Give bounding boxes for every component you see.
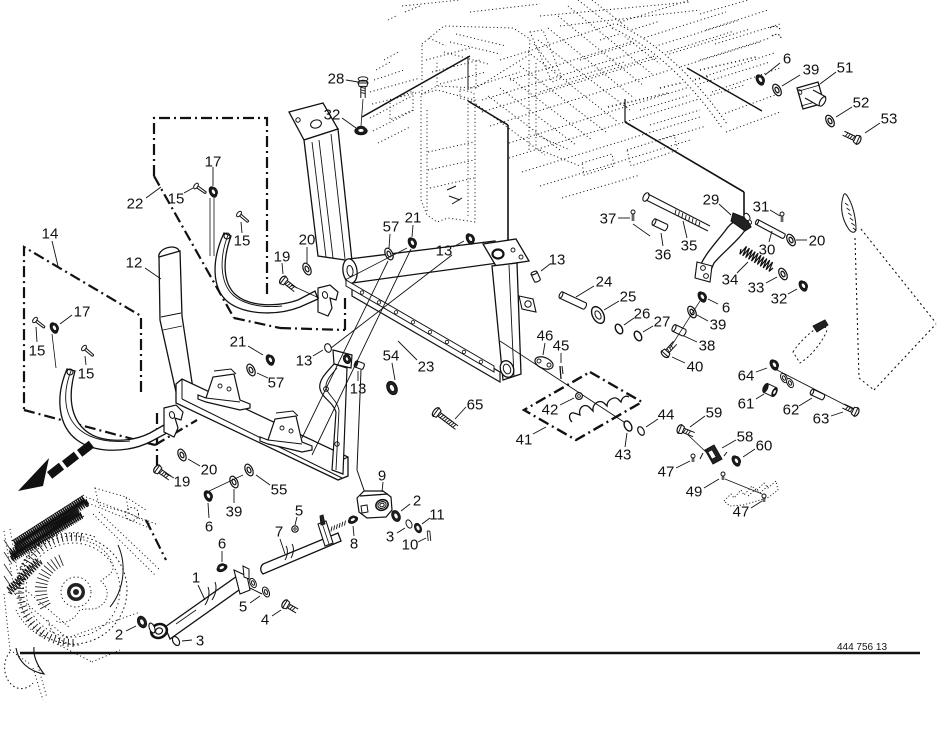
post D bracket: [333, 350, 352, 368]
bolt 53: [842, 129, 863, 145]
leader 57a long: [302, 261, 388, 438]
washer 57b: [245, 363, 257, 377]
leader 19-20 to band: [291, 285, 319, 298]
svg-text:33: 33: [748, 279, 765, 296]
pin 13c: [323, 343, 332, 353]
bolt 63: [841, 402, 860, 417]
post 32 body: [304, 129, 352, 261]
svg-text:23: 23: [418, 358, 435, 375]
screw 15d: [81, 344, 96, 358]
rod 35: [642, 192, 651, 203]
washers 62: [779, 372, 789, 383]
svg-text:55: 55: [271, 481, 288, 498]
svg-text:15: 15: [168, 190, 185, 207]
svg-text:32: 32: [771, 290, 788, 307]
chassis mounting bracket (dotted): [460, 89, 474, 102]
dash-dot clamp box lower: [156, 413, 158, 470]
leader 13a long: [331, 255, 452, 348]
pennant blade: [842, 194, 856, 232]
svg-text:35: 35: [681, 237, 698, 254]
machine bottom hook: [16, 647, 44, 674]
svg-text:7: 7: [275, 523, 283, 540]
pin 31: [780, 212, 784, 222]
nut 6a: [696, 290, 708, 304]
svg-text:43: 43: [615, 446, 632, 463]
rod 1: [165, 574, 246, 639]
lever 29: [698, 219, 749, 277]
chassis corner curl (dotted): [770, 26, 781, 38]
nut 17b: [49, 321, 61, 335]
post C side tab: [519, 296, 536, 312]
svg-text:15: 15: [78, 365, 95, 382]
machine spring lower: [7, 559, 42, 594]
svg-text:3: 3: [196, 632, 204, 649]
bushing 2a: [136, 615, 149, 629]
chassis rivet rows (dotted): [608, 93, 668, 107]
ring 11: [413, 522, 423, 533]
nut 60: [730, 454, 742, 468]
leader 21a long: [312, 249, 411, 455]
svg-text:17: 17: [205, 153, 222, 170]
washer 55: [243, 463, 255, 477]
lever 29 foot: [695, 262, 712, 282]
machine frame bars: [86, 497, 156, 524]
bell crank (dotted): [793, 327, 827, 363]
svg-text:9: 9: [378, 467, 386, 484]
ring 43: [622, 420, 633, 433]
post C foot: [498, 359, 516, 379]
chassis leader to part 51: [687, 68, 762, 111]
svg-text:58: 58: [737, 428, 754, 445]
nut 32b: [797, 279, 809, 293]
svg-text:20: 20: [809, 232, 826, 249]
svg-text:27: 27: [654, 313, 671, 330]
rod 7 thread: [331, 527, 332, 532]
nut 13a: [465, 232, 477, 246]
chassis short lines near cut (dotted): [640, 95, 690, 110]
svg-text:47: 47: [733, 503, 750, 520]
nut 17a: [208, 185, 220, 199]
post 12: [157, 245, 181, 264]
machine lower arcs: [5, 652, 33, 689]
pin 49: [721, 472, 725, 480]
svg-text:8: 8: [350, 535, 358, 552]
chassis inclined face lines (dotted): [476, 104, 545, 155]
svg-text:6: 6: [218, 535, 226, 552]
svg-text:14: 14: [42, 225, 59, 242]
svg-text:13: 13: [350, 380, 367, 397]
washer 20b: [176, 448, 188, 462]
pin 47b: [762, 494, 766, 502]
spring 34: [740, 246, 773, 271]
post C head plate: [483, 239, 529, 266]
svg-text:20: 20: [201, 461, 218, 478]
leader 37: [633, 224, 650, 236]
A-bracket 2: [260, 416, 312, 452]
svg-text:47: 47: [658, 463, 675, 480]
A-bracket 1: [198, 374, 250, 410]
machine top bracket: [95, 488, 129, 513]
chassis cut edge right: [624, 99, 626, 122]
washer 20c: [785, 233, 797, 247]
svg-text:54: 54: [383, 347, 400, 364]
svg-text:15: 15: [234, 232, 251, 249]
chassis top edge lines (dotted): [402, 0, 460, 6]
frame beam: [176, 379, 348, 480]
post 32 head plate: [289, 103, 338, 140]
rod 7 end bracket: [318, 521, 333, 546]
svg-text:24: 24: [596, 273, 613, 290]
washer 5a: [261, 586, 271, 598]
upper band strap: [215, 233, 318, 313]
axis 28-32: [361, 99, 363, 126]
washer 20a: [301, 262, 313, 276]
bolt 19b: [152, 464, 172, 482]
washer 39c: [228, 475, 240, 489]
leader 59-58: [687, 434, 706, 452]
svg-text:39: 39: [803, 61, 820, 78]
svg-text:11: 11: [429, 506, 445, 523]
bushing 54: [385, 380, 400, 397]
chassis step bracket (dotted): [627, 135, 678, 166]
pin 24: [558, 291, 587, 309]
svg-text:60: 60: [756, 437, 773, 454]
post D body: [320, 364, 347, 474]
svg-text:42: 42: [542, 401, 559, 418]
bolt 19a: [278, 275, 298, 294]
pin 10: [427, 531, 428, 541]
nut 21b: [265, 353, 277, 367]
pin 37: [631, 210, 635, 221]
chassis wheel arch (dotted): [614, 26, 725, 126]
svg-text:65: 65: [467, 396, 484, 413]
machine left post hatch: [4, 540, 12, 552]
ring 3b: [405, 519, 414, 529]
clevis 9: [357, 491, 392, 518]
bolt 59: [676, 424, 696, 439]
svg-text:52: 52: [853, 94, 870, 111]
svg-text:6: 6: [783, 50, 791, 67]
svg-text:21: 21: [230, 333, 247, 350]
svg-text:13: 13: [549, 251, 566, 268]
chassis main rails (dotted): [482, 20, 740, 100]
dash-dot box 41: [524, 372, 642, 440]
rod 1 eye: [149, 622, 169, 641]
axis line 42: [500, 341, 627, 424]
axis 6-40: [670, 301, 700, 348]
svg-text:44: 44: [658, 406, 675, 423]
wire form 42: [570, 396, 629, 422]
cotter 45: [560, 366, 561, 379]
svg-text:21: 21: [405, 209, 422, 226]
svg-text:444 756 13: 444 756 13: [837, 642, 887, 653]
pin 47a: [691, 454, 695, 462]
svg-text:10: 10: [402, 536, 419, 553]
bracket 58: [705, 445, 722, 464]
svg-text:29: 29: [703, 191, 720, 208]
bushing 13b: [531, 270, 541, 282]
machine sector curve: [110, 545, 123, 607]
leader 55 line: [205, 475, 243, 493]
leader 49 axis: [725, 479, 762, 494]
spacer 38: [671, 324, 687, 337]
chassis front housing (dotted): [422, 26, 530, 94]
bolt 4: [280, 599, 299, 615]
svg-text:57: 57: [383, 218, 400, 235]
chassis cut edge center: [468, 101, 508, 125]
axis 61-63: [777, 370, 853, 409]
ring 3a: [171, 635, 181, 646]
svg-text:6: 6: [722, 299, 730, 316]
washer 33: [777, 267, 789, 281]
svg-text:1: 1: [192, 569, 200, 586]
leader lines 17b: [52, 334, 56, 368]
nut 8: [347, 514, 359, 525]
svg-text:51: 51: [837, 59, 854, 76]
svg-text:34: 34: [722, 271, 739, 288]
svg-text:49: 49: [686, 483, 703, 500]
svg-text:45: 45: [553, 337, 570, 354]
svg-text:37: 37: [600, 210, 617, 227]
jagged lever (dotted): [724, 481, 778, 506]
svg-text:57: 57: [268, 374, 285, 391]
svg-text:59: 59: [706, 404, 723, 421]
rod 1 end block: [234, 570, 250, 594]
frame leader line down to clevis: [357, 370, 361, 470]
svg-text:62: 62: [783, 401, 800, 418]
washer 39a: [686, 305, 698, 319]
svg-text:31: 31: [753, 198, 770, 215]
bolt 40: [660, 340, 678, 359]
brace bar 23: [352, 286, 500, 382]
leader 21a: [345, 248, 407, 280]
chassis left panel (dotted): [421, 90, 475, 222]
bolt 65: [431, 406, 460, 431]
svg-text:2: 2: [115, 626, 123, 643]
dash-dot box 14: [24, 247, 141, 410]
chassis rails right of arch (dotted): [700, 38, 770, 60]
svg-text:12: 12: [126, 254, 143, 271]
dash-dot box 22: [154, 118, 267, 297]
svg-text:26: 26: [634, 305, 651, 322]
svg-text:61: 61: [738, 395, 755, 412]
svg-text:36: 36: [655, 246, 672, 263]
svg-text:5: 5: [295, 502, 303, 519]
rod 30: [755, 219, 786, 239]
chassis left lower step bracket (dotted): [390, 91, 413, 120]
washer 25: [589, 304, 607, 325]
svg-text:17: 17: [74, 303, 91, 320]
svg-text:5: 5: [239, 598, 247, 615]
svg-text:64: 64: [738, 367, 755, 384]
machine spring: [13, 496, 88, 549]
upper band end bracket: [318, 285, 338, 316]
nut 64: [768, 358, 780, 372]
svg-text:13: 13: [296, 352, 313, 369]
washer 42: [576, 393, 583, 400]
svg-text:39: 39: [226, 503, 243, 520]
svg-text:40: 40: [687, 358, 704, 375]
machine gear teeth: [72, 639, 74, 647]
svg-text:38: 38: [699, 337, 716, 354]
pin 5b: [292, 526, 298, 532]
turnbuckle middle: [250, 588, 262, 594]
rod 7: [261, 533, 341, 574]
screw 15a: [193, 182, 208, 195]
chassis fin plate (dotted): [530, 30, 562, 82]
svg-text:46: 46: [537, 327, 554, 344]
nut 21a: [407, 236, 419, 250]
bolt 28: [358, 80, 368, 98]
nut 6d: [203, 489, 215, 503]
svg-text:22: 22: [127, 195, 144, 212]
svg-text:3: 3: [386, 528, 394, 545]
svg-text:25: 25: [620, 288, 637, 305]
ring 26: [614, 323, 625, 335]
leader lines 17a: [209, 198, 211, 256]
screw 15b: [236, 210, 251, 224]
machine hub: [67, 583, 85, 601]
svg-text:19: 19: [274, 248, 291, 265]
nut 32a: [355, 126, 367, 135]
svg-text:4: 4: [261, 611, 269, 628]
lower band end bracket: [164, 405, 183, 437]
machine blade outline (dotted): [56, 539, 113, 622]
machine inner hub hatch: [40, 603, 50, 609]
svg-text:53: 53: [881, 110, 898, 127]
flange bushing 51: [797, 82, 824, 109]
roller 61: [761, 383, 778, 398]
ring 27: [633, 330, 644, 342]
frame tube: [349, 241, 498, 283]
svg-text:39: 39: [710, 316, 727, 333]
lower band strap: [60, 369, 167, 450]
post C body: [492, 263, 521, 380]
svg-text:41: 41: [516, 431, 533, 448]
leader 32 line: [362, 56, 470, 117]
pennant dotted triangle: [855, 238, 859, 378]
machine flywheel: [19, 536, 127, 644]
bottom rule line: [20, 652, 920, 655]
nut 6b: [754, 73, 766, 87]
pin 62: [809, 389, 825, 401]
svg-text:2: 2: [413, 492, 421, 509]
svg-text:15: 15: [29, 342, 46, 359]
washer 57a: [383, 247, 395, 261]
svg-text:19: 19: [174, 473, 191, 490]
svg-text:28: 28: [328, 70, 345, 87]
washer 39b: [771, 83, 783, 97]
svg-text:63: 63: [813, 410, 830, 427]
chassis cut edge left: [467, 56, 469, 90]
cylinder 36: [651, 218, 668, 231]
ring 44: [636, 426, 645, 437]
svg-text:20: 20: [299, 231, 316, 248]
svg-text:32: 32: [324, 106, 341, 123]
plate 46: [533, 354, 555, 371]
svg-text:6: 6: [205, 518, 213, 535]
screw 15c: [32, 316, 47, 330]
direction arrow: [18, 458, 49, 491]
pin 13d: [354, 361, 365, 370]
bushing 2b: [390, 509, 402, 523]
nut 6c: [215, 562, 228, 574]
washer 52: [824, 114, 836, 128]
